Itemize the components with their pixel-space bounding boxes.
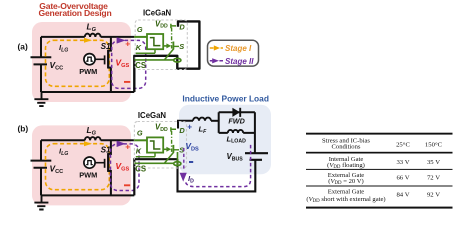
svg-text:(VDD short with external gate): (VDD short with external gate) <box>306 196 385 204</box>
svg-text:ID: ID <box>188 174 194 184</box>
light blue load background <box>179 105 271 175</box>
svg-text:35 V: 35 V <box>427 159 440 166</box>
svg-text:External Gate: External Gate <box>328 188 365 195</box>
inductor LLOAD <box>228 130 243 133</box>
svg-text:Inductive Power Load: Inductive Power Load <box>182 94 269 104</box>
svg-text:+: + <box>187 122 192 131</box>
svg-text:150°C: 150°C <box>425 141 443 148</box>
svg-text:Generation Design: Generation Design <box>38 8 111 18</box>
wire: D hook to load (b) <box>178 121 193 129</box>
svg-text:66 V: 66 V <box>396 175 409 182</box>
table bottom rule <box>306 207 453 209</box>
svg-text:92 V: 92 V <box>427 192 440 199</box>
source VBUS plates <box>245 153 268 160</box>
svg-text:FWD: FWD <box>228 117 244 126</box>
table top rule <box>306 133 453 135</box>
driver circuit (b) <box>31 125 135 210</box>
svg-text:(a): (a) <box>18 41 28 51</box>
legend box <box>208 40 259 66</box>
svg-text:(b): (b) <box>18 124 29 134</box>
freewheeling branch rails <box>219 112 255 153</box>
wire: VBUS to bottom rail <box>178 159 256 191</box>
wire: LF to diode branch <box>211 120 219 122</box>
svg-text:(VDD = 20 V): (VDD = 20 V) <box>328 178 363 186</box>
inductor LF <box>193 118 211 121</box>
svg-text:33 V: 33 V <box>396 159 409 166</box>
ICeGaN device (b) <box>134 123 185 174</box>
svg-text:72 V: 72 V <box>427 175 440 182</box>
svg-text:84 V: 84 V <box>396 192 409 199</box>
ICeGaN device (a) <box>134 19 185 70</box>
svg-text:ICeGaN: ICeGaN <box>143 9 172 18</box>
ICeGaN package outline (b) <box>134 122 186 169</box>
table rule <box>306 186 453 187</box>
stage II dashed loop (a) <box>112 40 146 88</box>
svg-text:Stage I: Stage I <box>225 44 252 53</box>
table rule <box>306 169 453 170</box>
svg-text:ICeGaN: ICeGaN <box>138 111 167 120</box>
legend stage II arrow <box>210 60 223 62</box>
legend stage I arrow <box>210 47 223 49</box>
wire: S to ground green (b) <box>177 152 179 167</box>
svg-text:Stage II: Stage II <box>225 57 254 66</box>
svg-text:Conditions: Conditions <box>332 144 361 151</box>
polarity - blue <box>189 161 193 163</box>
wire: black shorting loop D-S (a) <box>134 21 199 92</box>
stage II dashes at ID <box>183 148 185 171</box>
table header rule <box>306 152 453 154</box>
stage II dashed path (b) <box>186 143 251 187</box>
stage II dashed loop (b) <box>111 144 140 191</box>
wire: CS return path (b) <box>134 159 177 195</box>
current arrow ID <box>180 173 187 182</box>
ICeGaN package outline (a) <box>135 20 187 70</box>
driver circuit (a) <box>31 22 135 107</box>
svg-text:25°C: 25°C <box>396 141 410 148</box>
diode FWD <box>232 108 240 117</box>
